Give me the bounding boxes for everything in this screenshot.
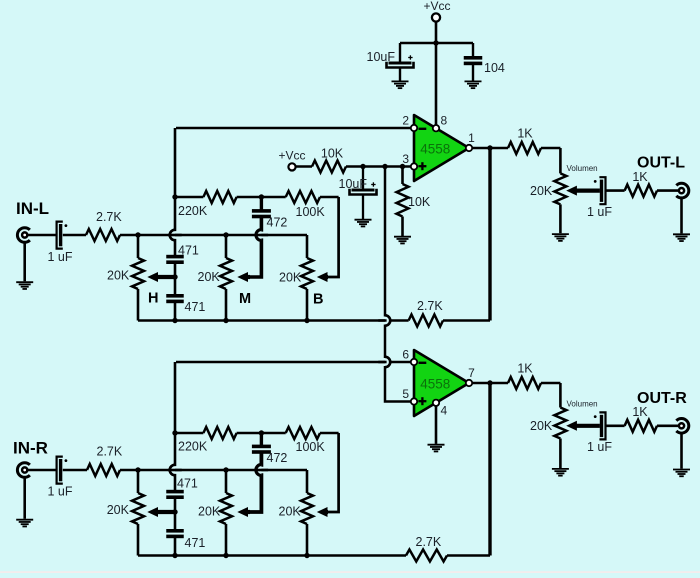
svg-text:20K: 20K — [198, 505, 221, 519]
svg-text:1 uF: 1 uF — [48, 485, 73, 499]
svg-text:+Vcc: +Vcc — [278, 149, 305, 163]
svg-text:OUT-R: OUT-R — [637, 390, 687, 407]
svg-text:1 uF: 1 uF — [48, 250, 73, 264]
svg-text:Volumen: Volumen — [567, 164, 598, 173]
svg-text:2.7K: 2.7K — [417, 299, 443, 313]
svg-text:3: 3 — [402, 152, 409, 166]
svg-text:471: 471 — [178, 244, 199, 258]
svg-text:2.7K: 2.7K — [96, 210, 122, 224]
svg-text:472: 472 — [267, 216, 288, 230]
svg-text:IN-R: IN-R — [13, 439, 48, 458]
svg-text:10K: 10K — [321, 147, 344, 161]
svg-text:1K: 1K — [517, 362, 533, 376]
svg-text:6: 6 — [402, 347, 409, 361]
svg-text:M: M — [239, 291, 251, 307]
svg-text:471: 471 — [185, 536, 206, 550]
svg-text:4558: 4558 — [420, 376, 450, 391]
svg-text:20K: 20K — [530, 419, 553, 433]
svg-text:471: 471 — [177, 476, 198, 490]
svg-text:1 uF: 1 uF — [587, 440, 612, 454]
svg-text:100K: 100K — [296, 205, 326, 219]
svg-text:IN-L: IN-L — [16, 199, 49, 218]
svg-text:20K: 20K — [530, 184, 553, 198]
svg-text:7: 7 — [468, 366, 475, 380]
svg-text:1: 1 — [468, 131, 475, 145]
svg-text:1K: 1K — [517, 127, 533, 141]
svg-text:+Vcc: +Vcc — [423, 0, 450, 13]
svg-text:20K: 20K — [198, 270, 221, 284]
svg-text:20K: 20K — [107, 269, 130, 283]
svg-text:2: 2 — [402, 113, 409, 127]
svg-text:H: H — [148, 291, 158, 307]
svg-text:10uF: 10uF — [339, 177, 368, 191]
svg-text:20K: 20K — [107, 503, 130, 517]
svg-text:10K: 10K — [408, 195, 431, 209]
svg-text:10uF: 10uF — [367, 50, 396, 64]
svg-text:20K: 20K — [279, 271, 302, 285]
svg-text:5: 5 — [402, 387, 409, 401]
svg-text:1 uF: 1 uF — [587, 205, 612, 219]
svg-text:8: 8 — [441, 113, 448, 127]
svg-text:20K: 20K — [279, 505, 302, 519]
svg-text:OUT-L: OUT-L — [637, 155, 685, 172]
svg-text:B: B — [313, 292, 323, 308]
svg-text:220K: 220K — [178, 439, 208, 453]
svg-text:Volumen: Volumen — [567, 399, 598, 408]
svg-text:1K: 1K — [632, 405, 648, 419]
svg-text:4558: 4558 — [420, 141, 450, 156]
svg-text:472: 472 — [267, 451, 288, 465]
svg-text:220K: 220K — [178, 204, 208, 218]
svg-text:1K: 1K — [632, 170, 648, 184]
svg-text:2.7K: 2.7K — [416, 535, 442, 549]
svg-text:100K: 100K — [296, 440, 326, 454]
svg-text:4: 4 — [441, 403, 448, 417]
svg-text:104: 104 — [484, 61, 505, 75]
svg-text:471: 471 — [185, 300, 206, 314]
svg-text:2.7K: 2.7K — [97, 445, 123, 459]
